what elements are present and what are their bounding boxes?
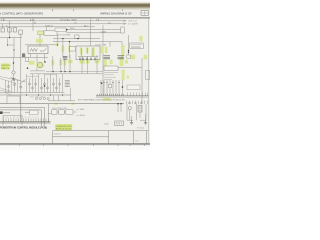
sheet bottom border line <box>0 143 150 145</box>
component small box x126-130 <box>127 55 131 58</box>
svg-text:G-Y 14A BR: G-Y 14A BR <box>128 23 138 26</box>
page reference box top right corner <box>141 11 149 16</box>
junction dots on sensor bus <box>26 94 63 95</box>
pin comb with rings y100-104 right <box>127 101 148 104</box>
wire: vertical x90.5 <box>90 18 92 46</box>
highlighted diode pills center (green) <box>62 45 65 52</box>
wire: vertical drop x40 <box>39 35 41 47</box>
highlighted label bottom center (green) <box>55 124 72 130</box>
wire: vertical long x142 <box>141 58 143 104</box>
amplifier box right x104-118 <box>104 66 118 71</box>
svg-text:04/23/03: 04/23/03 <box>54 134 61 136</box>
sensor bus lines y92.5/y95 <box>0 93 71 96</box>
wire: left drop x7.5 with elbow <box>8 38 15 45</box>
svg-text:S110: S110 <box>70 28 74 30</box>
highlighted small patch (green) x56 <box>56 43 59 46</box>
connector end marks on feed buses <box>124 20 126 25</box>
svg-text:BK-Y: BK-Y <box>84 25 89 27</box>
partial component box at right edge <box>146 70 150 79</box>
svg-text:C146: C146 <box>104 124 109 126</box>
wire: vertical stub x3.5 top <box>3 18 5 20</box>
note box text lines <box>131 45 142 48</box>
U1 internal strokes <box>78 48 98 57</box>
bottom shadow edge of sheet <box>0 144 150 145</box>
junction dot on relay feed <box>57 44 58 45</box>
svg-text:N CONTROL (M/T)–GENERATORS: N CONTROL (M/T)–GENERATORS <box>0 12 43 16</box>
relay K2 coil zigzag <box>30 48 47 51</box>
loops row 2 <box>35 98 49 100</box>
wire: long horizontal feed bus 3 <box>0 26 95 28</box>
svg-text:12 GY-R 4 BK: 12 GY-R 4 BK <box>95 45 107 47</box>
wire: vertical drop x9.5 <box>9 21 11 38</box>
wire: left horizontal y57.3 <box>0 56 48 58</box>
svg-text:C135 P-14: C135 P-14 <box>128 20 137 22</box>
highlighted label left edge (green) <box>1 63 10 69</box>
dark pin cluster below U1 <box>63 56 95 60</box>
ignition relay K2 box <box>28 46 48 54</box>
long horizontal wire y103.7 <box>0 103 124 105</box>
svg-text:14 8 3 11 6 2 9 5 12 7 4 1: 14 8 3 11 6 2 9 5 12 7 4 1 <box>3 117 39 119</box>
wire: vertical x110 short <box>109 42 111 47</box>
svg-text:FUSE 24: FUSE 24 <box>45 25 53 27</box>
sensor loops row 1 <box>7 83 60 89</box>
junction dots row y62-68 <box>27 67 29 69</box>
wire verticals x118/x121 down <box>118 104 121 112</box>
note box right x130 <box>130 43 143 49</box>
small box x74.6 y35 <box>75 35 79 38</box>
svg-text:—▷ S156: —▷ S156 <box>76 108 86 111</box>
dark connector box x22 y53 <box>22 53 25 57</box>
fuse element highlighted F10 <box>38 31 44 35</box>
sensor comb: vertical spark wires left <box>6 74 63 92</box>
svg-text:WIRING DIAGRAM (3 OF: WIRING DIAGRAM (3 OF <box>100 12 132 16</box>
svg-text:P. 14-3: P. 14-3 <box>138 127 145 129</box>
splice ground stub below ring <box>12 79 16 80</box>
svg-text:SWITCH: SWITCH <box>1 68 9 70</box>
wire: vertical long drop x20.8 <box>20 35 22 121</box>
svg-text:A/T POWERTRAIN CONTROL MODULE: A/T POWERTRAIN CONTROL MODULE (PCM) C175… <box>78 98 126 101</box>
small label box x30 y110 <box>30 110 38 114</box>
wire: long horizontal feed bus 2 <box>0 23 124 25</box>
grid tick marks above title <box>53 9 123 12</box>
wire: left horizontal y37.6 <box>0 37 22 39</box>
open box bottom-left x3-22 <box>3 115 22 125</box>
wire: vertical drop x14 <box>13 38 15 58</box>
wire: horizontal y67.6 right <box>113 67 142 69</box>
bottom table verticals <box>53 131 147 144</box>
ladder connector block <box>65 81 70 87</box>
wire stub x46.5 <box>46 27 48 31</box>
svg-text:W: W <box>34 22 36 24</box>
ignition coil circle <box>37 62 42 67</box>
highlighted label above relay (green) <box>36 39 43 43</box>
white area below sheet <box>0 145 150 150</box>
junction dot J1 <box>9 37 10 38</box>
shaded top edge of sheet <box>0 0 150 11</box>
right module pin comb y80-95 <box>100 80 123 95</box>
module bus double line y95.6/97 <box>96 96 148 97</box>
junction dot on comb <box>122 86 124 88</box>
wire: vertical drop x103 long <box>102 25 104 95</box>
right module pin ticks x126-148 <box>128 93 148 96</box>
relay block box K1 <box>44 31 57 35</box>
capacitor/igniter box U1 center <box>76 46 100 60</box>
small box S1 left of junction <box>55 28 66 31</box>
junction dot x66.8 <box>66 29 68 31</box>
wire: horizontal y100.8 <box>48 100 75 102</box>
svg-text:—▷ G104: —▷ G104 <box>76 114 86 117</box>
svg-text:ARTICLE 414-00: ARTICLE 414-00 <box>56 127 72 130</box>
sheet background <box>0 11 150 144</box>
junction dots on left verticals <box>7 44 8 45</box>
small component box x25.6 y57.4 <box>26 57 29 61</box>
wire connecting bottom boxes <box>48 112 77 114</box>
wire: short left y113.5 <box>3 112 10 114</box>
highlighted label under bus <box>103 98 111 101</box>
svg-text:B-LG: B-LG <box>30 19 35 21</box>
component box small x70 <box>70 47 76 51</box>
highlighted internals of U1 <box>80 48 83 55</box>
highlighted label mid (green) <box>29 61 35 65</box>
wire: horizontal segment y29.5 <box>67 29 124 31</box>
box top-left low (x7-20) <box>7 96 20 104</box>
wire: horizontal segment y32.8 <box>67 32 122 34</box>
hatched resistor element right block <box>138 105 142 112</box>
junction dots x128.5 <box>128 50 129 51</box>
highlighted coil blob (green) <box>36 62 44 69</box>
wire: horizontal y70.9 <box>30 70 45 72</box>
component row small boxes y121-125 center-right <box>115 121 124 126</box>
small component on comb <box>108 84 112 88</box>
ground symbol right block right <box>144 120 147 125</box>
tiny highlight dots near y103 <box>55 103 58 105</box>
nested route wires bottom-left <box>0 108 45 126</box>
wire verticals below relay K2 <box>31 54 45 71</box>
wire stubs inside right block <box>130 110 146 120</box>
dark component cluster right-mid <box>104 56 125 59</box>
bottom-left module bus double line <box>0 122 51 123</box>
highlighted pills row (green) center <box>51 60 99 66</box>
wire: vertical x70.5 down <box>70 88 72 96</box>
junction dots on mid wires <box>62 38 63 39</box>
wire: mid horizontal y44.8 <box>25 44 58 46</box>
tie lines across spark wires <box>27 75 57 76</box>
right lower block outline boxes <box>127 104 146 120</box>
wire verticals from pills down to coil bus <box>53 55 97 74</box>
svg-text:14-3: 14-3 <box>135 141 139 143</box>
svg-text:C 1049: C 1049 <box>100 31 106 33</box>
fold tick marks below bottom border <box>20 144 145 146</box>
wire: vertical drop x57.5 <box>57 35 59 45</box>
svg-text:C157 C158 C159: C157 C158 C159 <box>52 108 67 110</box>
top border double line of schematic <box>0 16 150 18</box>
wire: long horizontal feed bus 1 <box>0 20 124 22</box>
svg-text:POWERTRAIN CONTROL MODULE (PCM: POWERTRAIN CONTROL MODULE (PCM) <box>0 127 47 130</box>
wire: horizontal segment y41.6 with corner down at x122 <box>53 42 122 58</box>
wire stubs through diode pills <box>63 39 70 58</box>
junction dot left of right block <box>101 82 103 84</box>
wire stubs from sensor bus down <box>54 95 71 101</box>
wire verticals x48-50 down <box>21 104 49 122</box>
page reference box divider <box>141 11 149 16</box>
wire: coil bus y71.6 and y73.8 <box>30 72 103 74</box>
right sheet border <box>147 17 149 144</box>
wire: vertical drop x2.8 <box>2 24 4 28</box>
bottom-left module pin comb above bus <box>4 118 49 121</box>
center bottom relay boxes row <box>52 110 73 114</box>
right block: highlighted pills column x101-124 <box>101 36 148 80</box>
wire: vertical drop x128.5 <box>128 35 130 58</box>
bottom table top line <box>53 130 149 132</box>
junction dot x13.5 y63 <box>13 62 14 63</box>
svg-text:HOT AT ALL TIMES: HOT AT ALL TIMES <box>60 18 77 21</box>
component box x121 y27 <box>121 27 124 33</box>
fuse box F1 top left <box>1 28 22 35</box>
label box above right pins <box>127 85 140 90</box>
wire: vertical drop x33 <box>32 18 34 31</box>
connector ring C105 <box>12 71 15 74</box>
junction dots on coil bus <box>52 71 70 72</box>
junction dots on y103.7 <box>117 103 119 105</box>
label text above wires row1 <box>1 18 111 33</box>
wire: horizontal segment y38.6 <box>53 38 100 40</box>
wire: vertical drop x66.8 junction <box>66 30 68 33</box>
diagonal fan to left edge <box>0 77 26 96</box>
pin tick row into module bus <box>98 94 124 96</box>
junction dot on comb <box>44 85 46 87</box>
wire rows under amplifier <box>104 72 118 79</box>
svg-text:P 12: P 12 <box>1 19 5 21</box>
bottom table middle line <box>53 136 109 138</box>
wire: vertical connector drop x13.5 to ring <box>13 57 15 79</box>
dark square left edge y112 <box>0 111 3 114</box>
motor circle in right lower block <box>128 107 131 110</box>
svg-text:16 R-LG 8 W-BK: 16 R-LG 8 W-BK <box>57 34 71 36</box>
ground symbol right block left <box>130 120 133 125</box>
